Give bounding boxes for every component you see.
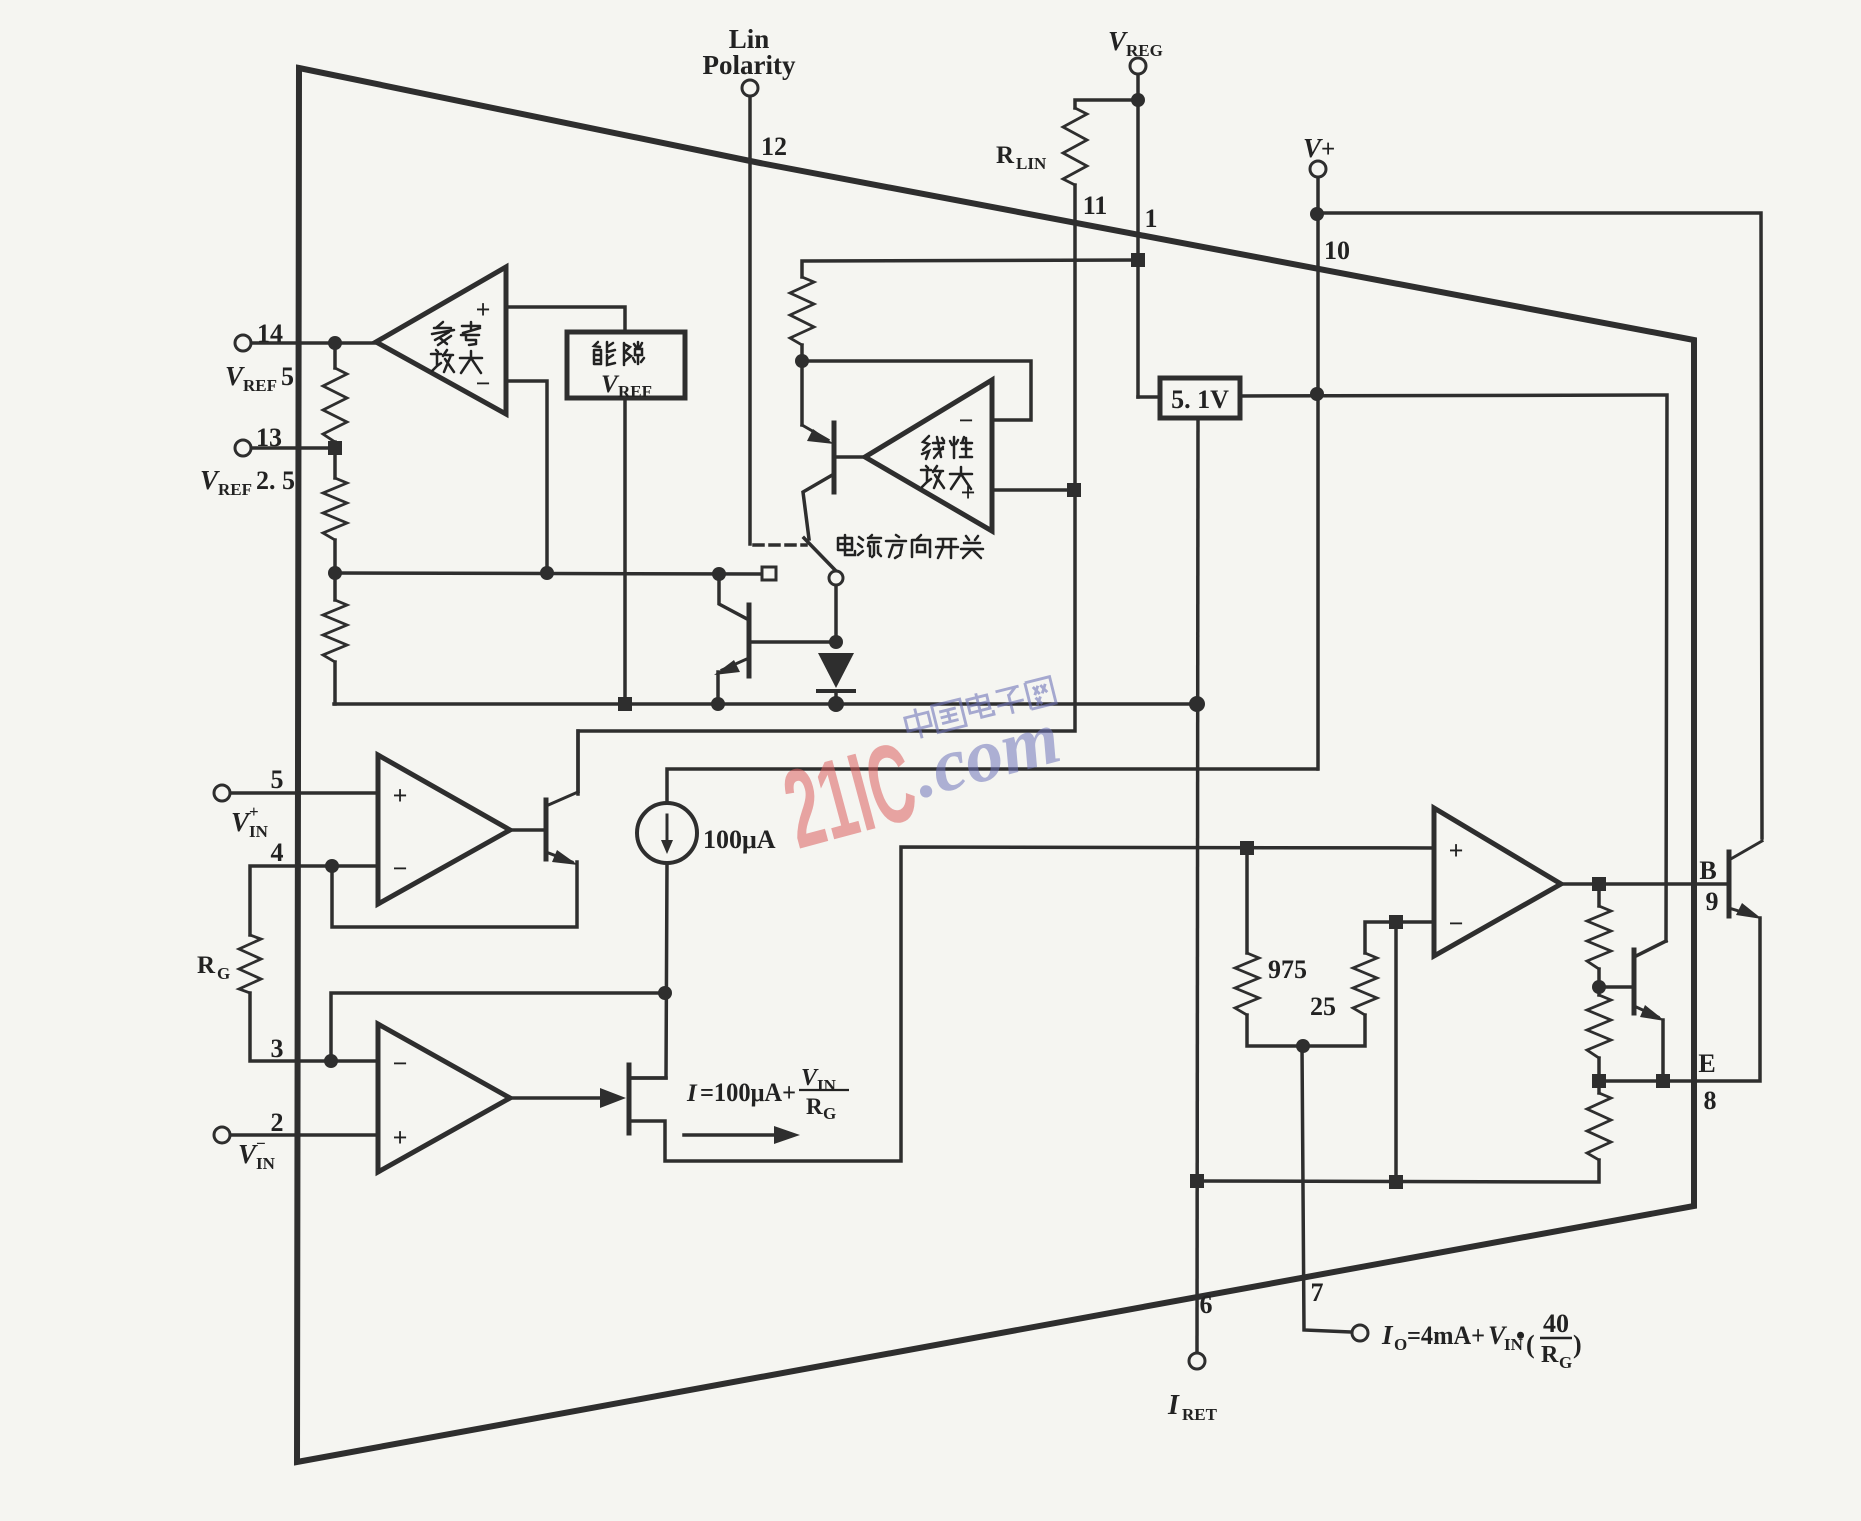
svg-text:+: + [393, 1123, 408, 1152]
switch stub open-square terminal [762, 567, 776, 580]
watermark char GUO 国 [932, 699, 967, 732]
node ref-amp minus on mid rail [540, 566, 554, 580]
svg-text:−: − [393, 854, 408, 883]
wire V+ top run to outer right vertical [1317, 213, 1762, 838]
node output amp to chain square [1592, 877, 1606, 891]
svg-text:I: I [1381, 1320, 1394, 1350]
transistor Qout emitter arrowhead [1736, 903, 1762, 919]
transistor Qout base bar [1727, 852, 1732, 916]
svg-text:IN: IN [817, 1076, 837, 1095]
node lower amp minus feedback [324, 1054, 338, 1068]
wire linamp node down to input transistor emitter [800, 361, 804, 425]
diode D1 body [818, 653, 854, 688]
op-amp lower input buffer (right-pointing) [378, 1024, 510, 1172]
node Qsw emitter on lower rail [711, 697, 725, 711]
FET gate/channel bar [627, 1065, 632, 1133]
wire pin13 terminal to divider tap [250, 446, 335, 450]
op-amp output amplifier (right-pointing) [1434, 808, 1561, 956]
current source arrow [666, 815, 669, 843]
svg-text:−: − [959, 406, 974, 435]
svg-text:−: − [256, 1134, 266, 1153]
label ref amp char DA 大 [460, 351, 482, 373]
wire current source bottom to FET drain [632, 863, 667, 1078]
node linamp output on RLIN line square [1067, 483, 1081, 497]
current source circle 100uA [637, 803, 697, 863]
node bandgap at lower rail square [618, 697, 632, 711]
wire 5.1V box bottom long vertical to IRET [1197, 418, 1198, 1353]
wire pin2 terminal to lower amp plus [230, 1133, 378, 1137]
node 975/25 bottom to pin7 [1296, 1039, 1310, 1053]
label switch char DIAN 电 [838, 535, 855, 555]
wire switch transistor base to diode node [751, 640, 836, 644]
wire VREG branch to RLIN top [1075, 100, 1138, 108]
node V+ at 5.1V output [1310, 387, 1324, 401]
svg-text:7: 7 [1311, 1278, 1324, 1307]
wire upper follower collector up to y731 [576, 731, 580, 794]
wire FET source stub and bottom loop to plus wire riser [631, 847, 1434, 1161]
svg-text:Polarity: Polarity [703, 50, 796, 80]
wire lower amp output to FET gate arrow [510, 1096, 602, 1100]
svg-text:+: + [476, 295, 491, 324]
node chain at E rail square [1592, 1074, 1606, 1088]
wire linamp input transistor lower lead to switch blade [803, 474, 834, 539]
svg-text:IN: IN [256, 1154, 276, 1173]
wire FET drain stub [631, 1076, 666, 1080]
svg-text:4: 4 [271, 838, 284, 867]
svg-text:1: 1 [1145, 204, 1158, 233]
wire switch pickoff down from node to transistor collector [719, 574, 749, 620]
transistor Qout emitter lead [1729, 908, 1755, 916]
svg-text:10: 10 [1324, 236, 1350, 265]
svg-text:G: G [1559, 1353, 1572, 1372]
op-amp upper input buffer (right-pointing) [378, 755, 510, 904]
current source arrowhead [661, 840, 673, 854]
transistor Qup emitter arrowhead [552, 850, 578, 865]
label switch char FANG 方 [886, 535, 906, 558]
wire dashed switch actuation link [754, 543, 806, 547]
node FET drain at feedback wire [658, 986, 672, 1000]
wire y1182 run to resistor chain bottom [1197, 1160, 1599, 1182]
wire ref-amp plus input to bandgap box top [506, 307, 625, 332]
current direction arrow under equation [684, 1133, 782, 1137]
wire divider between R3 and lower rail [333, 662, 337, 704]
wire switch circle to diode anode node [834, 586, 838, 642]
svg-text:REF: REF [218, 480, 252, 499]
terminal pin5 [214, 785, 230, 801]
transistor Qlin base bar [832, 423, 837, 492]
wire mid transistor collector riser [1634, 941, 1666, 957]
wire bandgap box bottom to lower rail [623, 398, 627, 703]
WATERMARK_CJK [903, 675, 1056, 741]
wire pin14 terminal to ref-amp input [251, 341, 376, 345]
node mid-rail left [328, 566, 342, 580]
resistor 975 [1235, 953, 1259, 1015]
svg-text:9: 9 [1706, 887, 1719, 916]
wire pin4 RG top to upper amp minus [250, 866, 378, 935]
svg-text:11: 11 [1083, 191, 1108, 220]
node minus input of output amp square [1389, 915, 1403, 929]
svg-text:V: V [1108, 26, 1128, 56]
svg-text:G: G [217, 964, 230, 983]
wire linearizing resistor top rail y261 to VREG line [802, 260, 1138, 277]
resistor divider R1 [323, 368, 347, 442]
wire diode cathode to lower rail [834, 691, 838, 704]
svg-text:13: 13 [256, 423, 282, 452]
node VREG at y261 square [1131, 253, 1145, 267]
wire resistor chain top from output node [1597, 884, 1601, 906]
wire divider top segment at x335 [333, 343, 337, 368]
label ref amp char KAO 考 [461, 322, 480, 345]
wire 5.1V output to mid transistor collector line [1240, 395, 1667, 941]
terminal pin13 [235, 440, 251, 456]
terminal pin2 [214, 1127, 230, 1143]
node Qmid emitter at E rail square [1656, 1074, 1670, 1088]
node y1182 at IRET line square [1190, 1174, 1204, 1188]
svg-text:=4mA+: =4mA+ [1407, 1321, 1485, 1350]
node linamp resistor tap [795, 354, 809, 368]
svg-text:•: • [1516, 1321, 1525, 1350]
svg-text:LIN: LIN [1016, 154, 1047, 173]
label bandgap char XI 隙 [624, 342, 644, 365]
label linamp char XING 性 [950, 437, 972, 458]
terminal pin6 IRET [1189, 1353, 1205, 1369]
wire RG bottom to pin3 line [250, 993, 378, 1061]
wire switch transistor emitter to lower rail [716, 672, 720, 704]
svg-text:R: R [197, 952, 216, 979]
terminal pin14 [235, 335, 251, 351]
terminal pin12 Lin Polarity [742, 80, 758, 96]
wire chain R1-R2 gap [1597, 969, 1601, 995]
svg-text:I: I [1167, 1390, 1180, 1421]
wire RLIN bottom down pin11 to y731 corner [578, 185, 1075, 791]
svg-text:100μA: 100μA [703, 825, 776, 854]
svg-text:5. 1V: 5. 1V [1171, 385, 1229, 414]
svg-text:6: 6 [1200, 1290, 1213, 1319]
wire mid rail y573 to switch stub [335, 573, 762, 574]
svg-text:14: 14 [257, 319, 283, 348]
svg-text:25: 25 [1310, 992, 1336, 1021]
wire linamp plus output to RLIN line [992, 488, 1074, 492]
svg-text:+: + [1449, 836, 1464, 865]
wire VREG terminal vertical [1136, 74, 1140, 397]
wire lower amp feedback minus node to FET drain line [331, 993, 665, 1061]
svg-text:2: 2 [271, 1108, 284, 1137]
transistor Qmid emitter arrowhead [1640, 1005, 1665, 1021]
node pin13 tap square [328, 441, 342, 455]
svg-text:12: 12 [761, 132, 787, 161]
svg-text:V: V [231, 807, 251, 837]
node switch pickoff on mid rail [712, 567, 726, 581]
FET gate arrowhead [600, 1088, 626, 1108]
watermark char WANG 网 [1025, 677, 1056, 710]
node lower rail meets IRET line [1189, 696, 1205, 712]
watermark char ZI 子 [994, 686, 1027, 717]
svg-text:G: G [823, 1104, 836, 1123]
svg-text:V: V [225, 361, 245, 391]
transistor Qlin emitter lead with arrow to bar [802, 425, 828, 440]
svg-text:O: O [1394, 1335, 1407, 1354]
svg-text:R: R [806, 1094, 823, 1119]
wire linamp feedback from node to minus input [802, 345, 1031, 420]
wire upper amp feedback minus node to emitter [332, 862, 577, 927]
svg-text:): ) [1573, 1330, 1582, 1359]
resistor RLIN [1063, 108, 1087, 185]
label linamp char XIAN 线 [922, 436, 944, 459]
wire V+ terminal down to collector rail corner [1316, 177, 1320, 769]
terminal pin10 V+ [1310, 161, 1326, 177]
wire 975 and 25 resistor bottoms join [1247, 1015, 1365, 1046]
svg-text:I: I [686, 1080, 698, 1107]
label ref amp char CAN 参 [432, 322, 454, 345]
label switch char LIU 流 [858, 535, 881, 557]
watermark char DIAN 电 [966, 690, 994, 719]
wire lower rail y704 [334, 702, 1197, 706]
watermark char ZHONG 中 [903, 706, 933, 741]
transistor Qup collector lead [546, 792, 578, 806]
wire minus node down to y1182 [1394, 922, 1398, 1182]
svg-text:8: 8 [1704, 1086, 1717, 1115]
svg-text:V: V [200, 465, 220, 495]
terminal pin7 IO [1352, 1325, 1368, 1341]
transistor Qup base bar [544, 800, 549, 859]
resistor RG [239, 935, 261, 993]
wire chain R2 bottom to E wire [1597, 1058, 1601, 1093]
regulator 5.1V box [1160, 378, 1240, 418]
svg-text:V: V [1303, 133, 1323, 163]
svg-text:(: ( [1526, 1330, 1535, 1359]
wire 25 resistor top to minus input of output amp [1365, 922, 1434, 953]
svg-text:R: R [996, 142, 1015, 169]
node VREG branch [1131, 93, 1145, 107]
svg-text:40: 40 [1543, 1309, 1569, 1338]
node chain mid to Qmid base [1592, 980, 1606, 994]
terminal pin1 VREG [1130, 58, 1146, 74]
svg-text:−: − [393, 1049, 408, 1078]
svg-text:IN: IN [249, 822, 269, 841]
transistor Qmid emitter lead [1634, 1006, 1658, 1017]
resistor chain Ra [1587, 906, 1611, 969]
switch contact circle [829, 571, 843, 585]
transistor Qlin emitter arrowhead [807, 429, 834, 444]
transistor Qsw emitter arrowhead [714, 660, 740, 675]
wire y769 from V+ to current source top [667, 769, 1317, 803]
node V+ top branch [1310, 207, 1324, 221]
transistor Qout collector lead [1729, 841, 1762, 860]
resistor linamp top [790, 277, 814, 345]
svg-text:E: E [1698, 1049, 1715, 1078]
node diode cathode on lower rail [828, 696, 844, 712]
transistor Qup emitter lead [546, 852, 572, 862]
svg-text:+: + [249, 802, 259, 821]
svg-text:REG: REG [1126, 41, 1163, 60]
svg-text:−: − [476, 369, 491, 398]
resistor divider R2 [323, 478, 347, 540]
resistor divider R3 [323, 600, 347, 662]
svg-text:2. 5: 2. 5 [256, 466, 295, 495]
label bandgap char NENG 能 [594, 342, 615, 365]
node y1182 at minus riser square [1389, 1175, 1403, 1189]
label ref amp char FANG 放 [431, 350, 454, 372]
op-amp linear amplifier (left-pointing) [865, 380, 992, 531]
wire E rail pin8 to output transistor emitter [1599, 918, 1760, 1081]
wire pin5 terminal to upper amp plus [230, 791, 378, 795]
svg-text:B: B [1699, 856, 1716, 885]
svg-text:3: 3 [271, 1034, 284, 1063]
diode D1 cathode bar [818, 689, 854, 693]
bandgap VREF box [567, 332, 685, 398]
label switch char XIANG 向 [912, 535, 930, 557]
node diode anode [829, 635, 843, 649]
svg-text:R: R [1541, 1342, 1559, 1368]
IC boundary trapezoid [297, 68, 1694, 1462]
label switch char GUAN 关 [961, 536, 983, 558]
wire VREG to 5.1V box left [1138, 395, 1160, 399]
svg-text:=100μA+: =100μA+ [700, 1078, 796, 1107]
label linamp char DA 大 [950, 467, 972, 489]
svg-text:+: + [393, 781, 408, 810]
svg-text:−: − [1449, 909, 1464, 938]
wire switch blade [804, 538, 836, 571]
svg-text:RET: RET [1182, 1405, 1218, 1424]
current direction arrowhead [774, 1126, 800, 1144]
svg-text:5: 5 [271, 765, 284, 794]
svg-text:+: + [1321, 136, 1335, 163]
svg-text:REF: REF [243, 376, 277, 395]
wire divider between R2 and mid rail [333, 540, 337, 600]
transistor Qmid base bar [1632, 950, 1637, 1013]
node upper amp minus feedback [325, 859, 339, 873]
wire pin7 from 975/25 node down to IO terminal [1302, 1046, 1352, 1332]
node pin14 divider tap [328, 336, 342, 350]
wire ref-amp minus input down to mid rail [506, 381, 547, 573]
resistor 25 [1353, 953, 1377, 1015]
wire Lin-Polarity pin12 vertical [748, 96, 752, 544]
resistor chain Rb [1587, 995, 1611, 1058]
resistor chain Rc [1587, 1093, 1611, 1160]
label switch char KAI 开 [936, 539, 958, 558]
node 975 top square [1240, 841, 1254, 855]
wire output amp to external transistor base pin9 [1561, 882, 1727, 886]
wire 975 resistor top from plus wire [1245, 848, 1249, 953]
wire linamp apex to transistor base [836, 455, 865, 459]
label linamp char FANG 放 [921, 466, 944, 488]
transistor Qsw base bar [747, 605, 752, 676]
wire upper amp apex to follower base [510, 828, 544, 832]
svg-text:V: V [238, 1139, 258, 1169]
svg-text:5: 5 [281, 362, 294, 391]
svg-text:REF: REF [618, 382, 652, 401]
op-amp reference amplifier (left-pointing) [376, 267, 506, 414]
wire mid transistor base from chain node [1599, 985, 1632, 989]
wire divider between R1 and pin13 tap [333, 442, 337, 478]
wire mid transistor emitter down to E rail [1661, 1020, 1665, 1081]
svg-text:975: 975 [1268, 955, 1307, 984]
transistor Qsw emitter arrow [722, 658, 749, 670]
